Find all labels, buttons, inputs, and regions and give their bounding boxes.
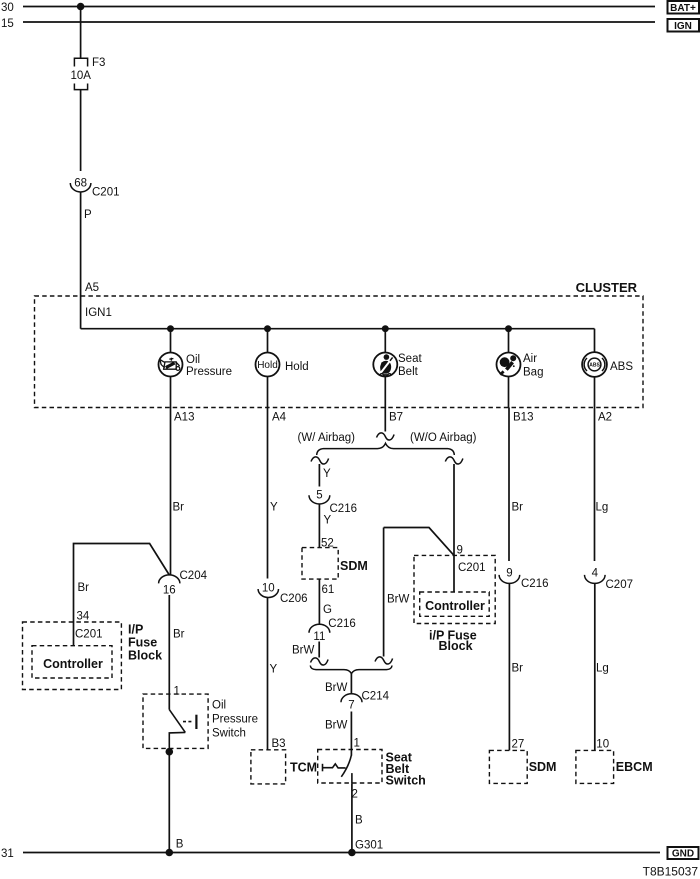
svg-text:C201: C201 [92,187,120,199]
svg-text:Y: Y [270,664,278,676]
IGN tag [668,19,700,32]
lamp ABS [582,352,607,377]
svg-text:Br: Br [512,663,524,675]
svg-text:Switch: Switch [386,774,426,788]
svg-text:BrW: BrW [387,594,410,606]
fuse F3 10A [74,58,87,89]
svg-text:Oil: Oil [186,354,200,366]
svg-text:A2: A2 [598,412,612,424]
svg-text:Br: Br [173,502,185,514]
IGN1 bus wire [81,328,595,330]
svg-text:Lg: Lg [596,663,609,675]
svg-text:10A: 10A [71,70,92,82]
svg-text:Br: Br [512,502,524,514]
svg-text:(W/ Airbag): (W/ Airbag) [298,432,356,444]
lamp air bag [497,353,521,377]
svg-text:61: 61 [322,584,335,596]
svg-text:Y: Y [324,515,332,527]
connector C214 pin 7 [341,694,362,703]
connector C216 pin 11 [309,624,330,633]
wire Lg to EBCM [594,583,596,750]
wire pin9 to controller [453,555,455,592]
svg-text:Y: Y [270,502,278,514]
svg-text:7: 7 [348,700,354,712]
svg-text:B: B [355,815,363,827]
svg-text:C206: C206 [280,593,308,605]
wire B13 Br [508,408,510,562]
connector C204 pin 16 [159,575,180,584]
wire Y to SDM [318,504,320,548]
lamp hold [256,353,280,377]
svg-text:C204: C204 [180,570,208,582]
svg-text:EBCM: EBCM [616,760,653,774]
split brace [317,443,455,455]
svg-text:B13: B13 [513,412,533,424]
svg-text:T8B15037: T8B15037 [643,865,699,879]
SDM box bottom [489,750,527,783]
svg-text:10: 10 [262,583,275,595]
svg-text:C216: C216 [521,578,549,590]
node oil pressure [167,325,174,332]
lamp exit wires to cluster edge [170,377,172,408]
svg-text:BrW: BrW [292,645,315,657]
controller box right [420,592,490,616]
SDM box top [302,548,338,580]
svg-text:G: G [323,604,332,616]
wire B7 [384,408,386,432]
svg-text:B: B [176,839,184,851]
svg-text:Br: Br [78,582,90,594]
svg-text:9: 9 [506,568,512,580]
node ground G301 [348,849,356,857]
node hold [264,325,271,332]
svg-text:IGN1: IGN1 [85,307,112,319]
oil pressure switch contacts [169,710,196,749]
svg-text:1: 1 [174,686,180,698]
wire break B7 [377,433,395,440]
wire A4 Y [267,408,269,579]
svg-text:68: 68 [74,178,87,190]
svg-text:Hold: Hold [285,361,309,373]
svg-text:Block: Block [439,639,473,653]
svg-text:C216: C216 [328,618,356,630]
node ground left [166,849,174,857]
svg-text:(W/O Airbag): (W/O Airbag) [410,432,477,444]
wire rail30 to fuse [80,7,82,59]
svg-text:ABS: ABS [610,361,633,373]
seat belt switch box [318,750,382,784]
wire 2 B to ground [351,783,353,852]
svg-text:Oil: Oil [212,700,226,712]
svg-text:15: 15 [1,18,14,30]
wire break left branch [311,457,329,464]
I/P fuse block box left [23,622,122,690]
svg-text:16: 16 [163,584,176,596]
lamp oil pressure [159,353,183,377]
wire P to cluster [80,192,82,329]
wire 11 to merge [318,642,320,658]
svg-text:Controller: Controller [43,657,103,671]
node on rail 30 [77,3,85,11]
seat belt switch contacts [323,755,352,783]
svg-text:BAT+: BAT+ [670,3,696,14]
EBCM box [576,750,614,783]
svg-text:11: 11 [313,631,325,643]
svg-text:C216: C216 [330,503,358,515]
TCM box [251,750,286,784]
svg-text:Lg: Lg [596,502,609,514]
wire Br to SDM [508,583,510,750]
svg-text:TCM: TCM [290,761,317,775]
CLUSTER box [35,296,644,408]
svg-text:BrW: BrW [325,682,348,694]
svg-text:BrW: BrW [325,720,348,732]
svg-text:Br: Br [173,629,185,641]
svg-text:B3: B3 [272,738,286,750]
svg-text:Bag: Bag [523,367,543,379]
svg-text:F3: F3 [92,57,105,69]
svg-text:Seat: Seat [398,353,422,365]
svg-text:A4: A4 [272,412,287,424]
svg-text:C201: C201 [75,629,103,641]
right branch wire to fuse block [453,464,455,555]
svg-text:Pressure: Pressure [212,714,258,726]
wire A13 Br [170,408,172,576]
BAT+ tag [668,1,700,14]
svg-text:GND: GND [672,849,694,860]
lamp seat belt [373,353,397,377]
svg-text:A13: A13 [174,412,194,424]
wire merge to C214 [350,674,352,694]
svg-text:P: P [84,209,92,221]
svg-text:4: 4 [592,568,599,580]
svg-text:Block: Block [128,649,162,663]
svg-text:I/P: I/P [128,623,143,637]
svg-text:Belt: Belt [398,366,419,378]
svg-text:G301: G301 [355,840,383,852]
svg-text:2: 2 [352,789,358,801]
svg-text:A5: A5 [85,282,99,294]
svg-text:Controller: Controller [425,599,485,613]
svg-text:27: 27 [512,738,525,750]
junction below oil switch [166,748,174,756]
node seat belt [382,325,389,332]
svg-text:C214: C214 [362,691,390,703]
merge brace [310,666,392,674]
svg-text:ABS: ABS [589,363,600,369]
wire 61 G [318,579,320,624]
left branch jog wire [74,544,170,646]
svg-text:C201: C201 [458,562,486,574]
wire Y to TCM [267,597,269,749]
svg-text:Hold: Hold [257,360,278,371]
svg-text:IGN: IGN [674,21,692,32]
svg-text:1: 1 [354,738,360,750]
oil pressure switch box [143,694,208,748]
svg-text:31: 31 [1,848,14,860]
svg-text:C207: C207 [606,579,634,591]
wire Y to C216 [318,464,320,487]
svg-text:B7: B7 [389,412,403,424]
svg-text:Air: Air [523,353,537,365]
GND tag [668,847,699,859]
svg-text:CLUSTER: CLUSTER [576,280,638,295]
wire fuse to C201 [80,90,82,171]
svg-text:Switch: Switch [212,728,246,740]
wire break right merge [375,657,393,664]
svg-text:Fuse: Fuse [128,636,157,650]
node air bag [505,325,512,332]
wire BrW right branch down [383,528,385,657]
svg-text:SDM: SDM [529,760,557,774]
svg-text:30: 30 [1,2,14,14]
controller box left [32,646,112,678]
jog wire BrW to pin 9 [384,528,454,556]
wire B to ground [168,748,170,852]
svg-text:10: 10 [596,738,609,750]
svg-text:34: 34 [77,611,90,623]
i/P fuse block box [414,555,495,623]
wire stubs to lamps [170,329,172,353]
svg-text:Y: Y [323,468,331,480]
svg-text:Pressure: Pressure [186,366,232,378]
wire BrW to seat belt switch [350,712,352,756]
wire break left merge [311,658,329,665]
wire A2 Lg [594,408,596,562]
svg-text:SDM: SDM [340,559,368,573]
wire Br to oil switch [168,595,170,710]
wire break right branch [445,457,463,464]
svg-text:5: 5 [316,489,322,501]
